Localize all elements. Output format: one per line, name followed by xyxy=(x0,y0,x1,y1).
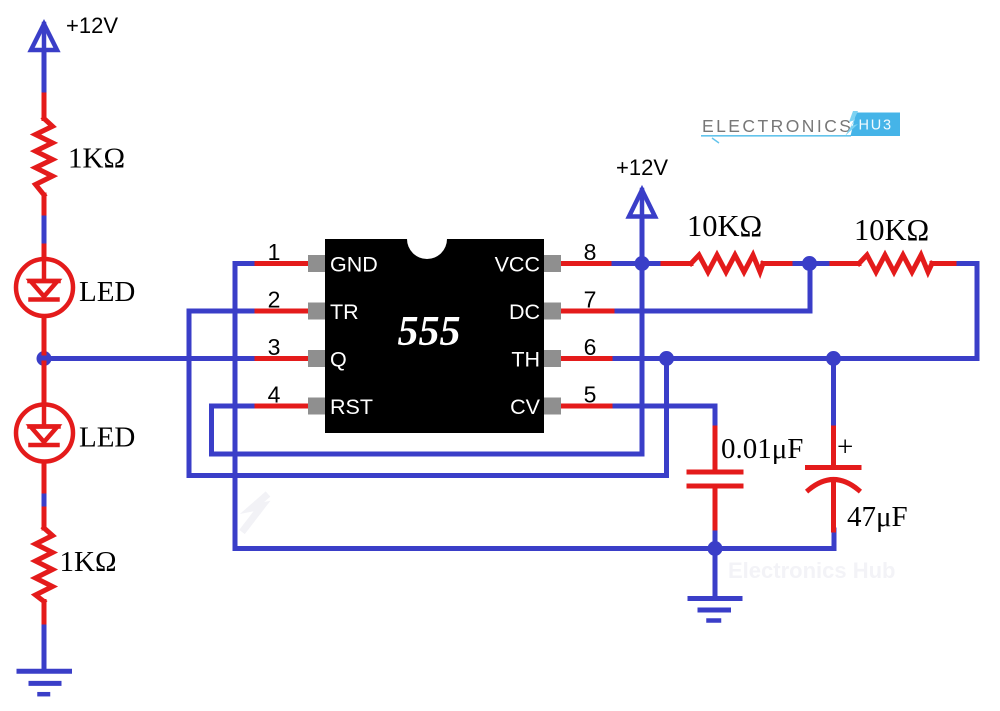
svg-text:6: 6 xyxy=(584,334,597,360)
svg-text:HU3: HU3 xyxy=(859,118,893,134)
svg-text:5: 5 xyxy=(584,382,597,408)
svg-text:LED: LED xyxy=(79,276,135,308)
svg-text:555: 555 xyxy=(398,309,461,355)
svg-text:RST: RST xyxy=(330,395,373,419)
svg-text:DC: DC xyxy=(509,300,540,324)
svg-text:0.01μF: 0.01μF xyxy=(721,433,803,465)
svg-text:TR: TR xyxy=(330,300,359,324)
svg-text:47μF: 47μF xyxy=(847,501,908,533)
svg-text:LED: LED xyxy=(79,422,135,454)
svg-text:4: 4 xyxy=(268,382,281,408)
svg-text:VCC: VCC xyxy=(495,253,540,277)
svg-text:Electronics Hub: Electronics Hub xyxy=(728,558,895,583)
svg-text:+12V: +12V xyxy=(66,13,118,38)
svg-text:GND: GND xyxy=(330,253,378,277)
svg-text:7: 7 xyxy=(584,287,597,313)
svg-text:CV: CV xyxy=(510,395,541,419)
svg-text:8: 8 xyxy=(584,239,597,265)
svg-text:1KΩ: 1KΩ xyxy=(68,143,125,175)
svg-text:10KΩ: 10KΩ xyxy=(854,213,929,247)
svg-text:1KΩ: 1KΩ xyxy=(60,546,117,578)
svg-text:+12V: +12V xyxy=(616,155,668,180)
svg-text:1: 1 xyxy=(268,239,281,265)
svg-text:2: 2 xyxy=(268,287,281,313)
svg-text:ELECTRONICS: ELECTRONICS xyxy=(702,116,853,136)
svg-text:TH: TH xyxy=(511,348,540,372)
svg-text:Q: Q xyxy=(330,348,347,372)
svg-text:10KΩ: 10KΩ xyxy=(687,209,762,243)
svg-text:+: + xyxy=(837,431,853,463)
svg-text:3: 3 xyxy=(268,334,281,360)
